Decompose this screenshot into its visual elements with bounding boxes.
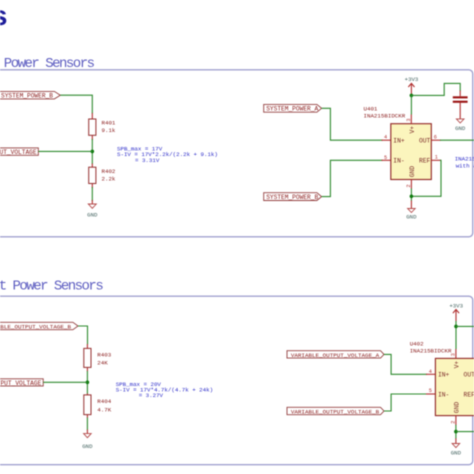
svg-text:GND: GND	[409, 166, 416, 178]
svg-text:V+: V+	[454, 361, 461, 369]
svg-text:IN-: IN-	[438, 392, 449, 399]
svg-text:INA215BIDCKR: INA215BIDCKR	[410, 347, 452, 354]
svg-text:2: 2	[451, 421, 457, 424]
svg-text:s: s	[0, 0, 7, 31]
svg-text:9.1k: 9.1k	[102, 127, 116, 134]
svg-text:= 3.27V: = 3.27V	[139, 392, 164, 399]
svg-text:2: 2	[406, 184, 412, 187]
svg-text:+3V3: +3V3	[449, 303, 463, 310]
svg-text:IN-: IN-	[393, 158, 404, 165]
svg-text:R401: R401	[102, 120, 116, 127]
svg-text:5: 5	[384, 155, 387, 161]
svg-text:SYSTEM_POWER_B: SYSTEM_POWER_B	[1, 92, 53, 99]
svg-text:R402: R402	[102, 168, 116, 175]
svg-text:GND: GND	[87, 212, 98, 219]
svg-text:S-IV = 17V*4.7k/(4.7k + 24k): S-IV = 17V*4.7k/(4.7k + 24k)	[116, 387, 213, 394]
svg-text:4.7K: 4.7K	[97, 407, 111, 414]
svg-text:SYSTEM_POWER_A: SYSTEM_POWER_A	[266, 106, 318, 113]
svg-text:INA215: INA215	[455, 155, 474, 162]
svg-text:R404: R404	[97, 398, 111, 405]
svg-text:GND: GND	[455, 125, 466, 132]
svg-text:GND: GND	[454, 402, 461, 414]
svg-text:4: 4	[429, 369, 432, 375]
svg-text:REF: REF	[464, 392, 474, 399]
svg-text:OUT: OUT	[419, 137, 431, 144]
svg-text:R403: R403	[97, 351, 111, 358]
svg-text:+3V3: +3V3	[405, 76, 419, 83]
svg-text:with an: with an	[456, 162, 474, 169]
svg-text:6: 6	[434, 135, 437, 141]
svg-text:3: 3	[450, 353, 456, 356]
svg-text:1: 1	[435, 155, 438, 161]
svg-text:OUTPUT_VOLTAGE: OUTPUT_VOLTAGE	[0, 149, 37, 156]
svg-text:4: 4	[384, 135, 387, 141]
svg-text:SYSTEM_POWER_B: SYSTEM_POWER_B	[266, 194, 318, 201]
svg-text:S-IV = 17V*2.2k/(2.2k + 9.1k): S-IV = 17V*2.2k/(2.2k + 9.1k)	[117, 151, 218, 158]
svg-text:5: 5	[429, 388, 432, 394]
svg-text:VARIABLE_OUTPUT_VOLTAGE_B: VARIABLE_OUTPUT_VOLTAGE_B	[0, 323, 71, 330]
svg-text:OUTPUT_VOLTAGE: OUTPUT_VOLTAGE	[0, 380, 42, 387]
svg-text:VARIABLE_OUTPUT_VOLTAGE_B: VARIABLE_OUTPUT_VOLTAGE_B	[291, 408, 380, 415]
svg-text:REF: REF	[419, 158, 431, 165]
svg-text:GND: GND	[82, 443, 93, 450]
svg-text:24K: 24K	[97, 359, 108, 366]
svg-text:Output Power Sensors: Output Power Sensors	[0, 279, 103, 295]
svg-text:2.2k: 2.2k	[102, 176, 116, 183]
svg-text:VARIABLE_OUTPUT_VOLTAGE_A: VARIABLE_OUTPUT_VOLTAGE_A	[291, 352, 380, 359]
svg-text:INA215BIDCKR: INA215BIDCKR	[364, 112, 406, 119]
svg-text:GND: GND	[451, 449, 462, 456]
svg-text:IN+: IN+	[438, 372, 450, 379]
svg-text:GND: GND	[406, 213, 417, 220]
svg-text:V+: V+	[409, 126, 416, 134]
svg-text:IN+: IN+	[393, 137, 405, 144]
svg-text:= 3.31V: = 3.31V	[135, 157, 160, 164]
svg-text:Power Sensors: Power Sensors	[4, 56, 95, 72]
svg-text:3: 3	[406, 118, 412, 121]
svg-text:OUT: OUT	[464, 372, 474, 379]
